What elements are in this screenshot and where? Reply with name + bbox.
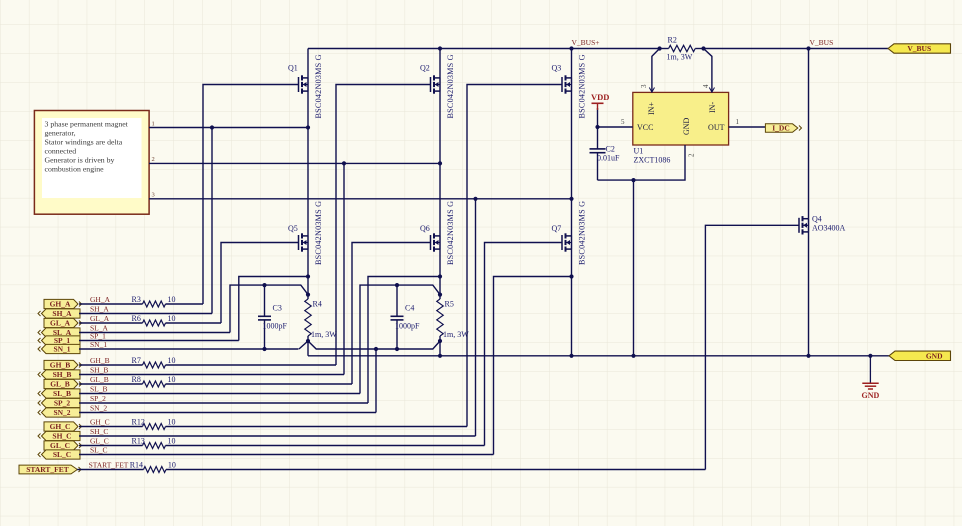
junction SH_A phase A — [210, 125, 214, 129]
svg-text:Q7: Q7 — [552, 224, 562, 233]
svg-text:3: 3 — [152, 192, 155, 199]
junction bus R2 left sense tap — [658, 46, 662, 50]
junction Q6 source SL_B tap — [438, 293, 442, 297]
svg-text:SL_B: SL_B — [53, 389, 71, 398]
port GND — [889, 351, 951, 360]
svg-text:GL_C: GL_C — [50, 441, 70, 450]
svg-text:5: 5 — [621, 118, 625, 126]
svg-text:Q2: Q2 — [420, 64, 430, 73]
svg-text:I_DC: I_DC — [772, 124, 790, 133]
generator note box — [34, 111, 149, 215]
svg-text:OUT: OUT — [708, 123, 725, 132]
svg-text:START_FET: START_FET — [26, 465, 69, 474]
port SP_2 — [42, 398, 81, 407]
junction rail at Q7 source — [569, 354, 573, 358]
wire Q6 source node down — [439, 249, 441, 295]
svg-text:SL_C: SL_C — [90, 446, 108, 455]
port SL_B — [42, 389, 81, 398]
junction C4 bottom on SN_2 line — [395, 347, 399, 351]
svg-text:GL_A: GL_A — [90, 314, 110, 323]
resistor R8 10 — [79, 383, 143, 385]
riser SH_C to phase C — [475, 199, 477, 436]
transistor Q3 BSC042N03MS G — [561, 77, 563, 92]
transistor Q2 BSC042N03MS G — [430, 77, 432, 92]
wire SN_2 — [79, 412, 376, 414]
wire ground branch down to rail — [633, 180, 635, 356]
ground symbol GND — [869, 356, 871, 383]
wire Q4 source to rail — [808, 232, 810, 356]
resistor R5 1m 3W shunt phase B — [439, 295, 441, 299]
junction Q5 source SL_A tap — [306, 293, 310, 297]
svg-text:GND: GND — [682, 117, 691, 135]
wire phase B from generator pin 2 — [149, 162, 440, 164]
op-amp U1 ZXCT1086 current monitor — [633, 92, 729, 145]
svg-text:ZXCT1086: ZXCT1086 — [634, 156, 671, 165]
riser GH_A to Q1 gate — [203, 85, 299, 305]
svg-text:BSC042N03MS G: BSC042N03MS G — [314, 54, 323, 118]
svg-text:SH_C: SH_C — [52, 432, 71, 441]
port SN_2 — [42, 408, 81, 417]
wire Q7 source to ground rail — [571, 249, 573, 357]
svg-text:GH_B: GH_B — [50, 361, 70, 370]
junction SH_C phase C — [473, 197, 477, 201]
wire phase C from generator pin 3 — [149, 198, 572, 200]
svg-text:combustion engine: combustion engine — [45, 165, 105, 174]
junction Q5 source SP_1 tap — [306, 274, 310, 278]
resistor R7 10 — [79, 364, 143, 366]
svg-text:0.01uF: 0.01uF — [597, 154, 620, 163]
svg-text:GL_C: GL_C — [90, 437, 109, 446]
riser GH_C to Q3 gate — [467, 85, 563, 427]
svg-text:R8: R8 — [132, 375, 141, 384]
junction bus R2 right sense tap — [701, 46, 705, 50]
port SH_B — [42, 370, 81, 379]
svg-text:10: 10 — [168, 461, 176, 470]
svg-text:2: 2 — [152, 156, 155, 163]
wire Q1 source down to phase A — [307, 91, 309, 236]
wire OUT pin 1 to I_DC port — [729, 126, 766, 128]
svg-text:SP_2: SP_2 — [90, 394, 106, 403]
svg-text:1: 1 — [152, 120, 155, 127]
svg-text:10: 10 — [168, 437, 176, 446]
transistor Q7 BSC042N03MS G — [561, 235, 563, 250]
riser SL_A to C3/Q5 source — [230, 285, 308, 332]
wire SH_A — [79, 313, 212, 315]
svg-text:GH_A: GH_A — [90, 295, 111, 304]
port SN_1 — [42, 344, 81, 353]
junction Q1 source at phase A — [306, 125, 310, 129]
junction ground branch — [631, 178, 635, 182]
svg-text:R6: R6 — [132, 314, 141, 323]
wire Q2 drain to bus — [439, 49, 441, 79]
wire R4 bottom to ground rail — [307, 341, 309, 356]
svg-text:1m, 3W: 1m, 3W — [311, 330, 337, 339]
svg-text:SP_2: SP_2 — [54, 399, 71, 408]
junction on bus at Q3 drain / V_BUS+ — [569, 46, 573, 50]
junction bus at Q4 drain / V_BUS — [806, 46, 810, 50]
port SP_1 — [42, 336, 81, 345]
wire Q3 source down to phase C — [571, 91, 573, 236]
svg-text:GH_B: GH_B — [90, 356, 110, 365]
wire SP_1 — [79, 340, 239, 342]
wire top bus V_BUS+ — [308, 48, 660, 50]
port START_FET — [19, 465, 77, 474]
port I_DC — [765, 124, 797, 133]
port GL_C — [44, 441, 78, 450]
svg-text:SN_1: SN_1 — [53, 345, 70, 354]
wire SL_C — [79, 454, 494, 456]
resistor R12 10 — [79, 426, 143, 428]
wire SN_1 sense line to R4 and R5 bottoms — [299, 341, 440, 349]
riser SL_C to Q7 source — [494, 277, 572, 455]
svg-text:U1: U1 — [634, 147, 644, 156]
wire bus to V_BUS port — [704, 48, 889, 50]
wire VDD node to VCC pin 5 — [598, 126, 633, 128]
svg-text:R4: R4 — [313, 300, 322, 309]
junction C3 top on SL_A line — [262, 283, 266, 287]
junction rail at GND symbol — [868, 354, 872, 358]
svg-text:1m, 3W: 1m, 3W — [443, 330, 469, 339]
svg-text:SL_C: SL_C — [53, 450, 71, 459]
wire Q5 source node down — [307, 249, 309, 295]
svg-text:GL_B: GL_B — [90, 375, 109, 384]
svg-text:10: 10 — [168, 314, 176, 323]
svg-text:BSC042N03MS G: BSC042N03MS G — [314, 201, 323, 265]
junction Q3 source at phase C — [569, 197, 573, 201]
svg-text:2: 2 — [688, 153, 696, 157]
port GH_A — [44, 299, 78, 308]
svg-text:GND: GND — [862, 391, 880, 400]
capacitor C3 1000pF — [264, 285, 266, 316]
junction rail at R5 — [438, 354, 442, 358]
riser SP_1 to Q5 source — [239, 277, 308, 341]
riser SN_2 to sense line — [375, 349, 377, 413]
svg-text:Q1: Q1 — [288, 64, 298, 73]
svg-text:IN+: IN+ — [647, 102, 656, 115]
svg-text:R3: R3 — [132, 295, 141, 304]
svg-text:10: 10 — [168, 375, 176, 384]
port SL_C — [42, 450, 81, 459]
junction R5 bottom SN_2 sense — [438, 339, 442, 343]
resistor R4 1m 3W shunt phase A — [307, 295, 309, 299]
svg-text:VDD: VDD — [591, 92, 609, 102]
svg-text:connected: connected — [45, 147, 77, 156]
svg-text:C3: C3 — [273, 304, 282, 313]
wire SL_B — [79, 393, 360, 395]
svg-text:START_FET: START_FET — [89, 461, 129, 470]
junction rail at Q4 source — [806, 354, 810, 358]
svg-text:Q6: Q6 — [420, 224, 430, 233]
junction C4 top on SL_B line — [395, 283, 399, 287]
svg-text:AO3400A: AO3400A — [812, 223, 846, 232]
wire SL_A — [79, 332, 230, 334]
svg-text:generator,: generator, — [45, 129, 76, 138]
junction on bus at Q2 drain — [438, 46, 442, 50]
svg-text:SN_2: SN_2 — [90, 404, 107, 413]
svg-text:BSC042N03MS G: BSC042N03MS G — [578, 201, 587, 265]
capacitor C4 1000pF — [396, 285, 398, 316]
svg-text:V_BUS: V_BUS — [810, 38, 834, 47]
junction SH_B phase B — [342, 161, 346, 165]
svg-text:SH_C: SH_C — [90, 427, 108, 436]
wire START_FET to Q4 gate riser — [166, 469, 705, 471]
junction rail at U1 ground branch — [631, 354, 635, 358]
svg-text:3: 3 — [640, 84, 648, 88]
junction R4 bottom SN_1 sense — [306, 339, 310, 343]
svg-text:GND: GND — [926, 351, 943, 360]
svg-text:SH_A: SH_A — [90, 305, 109, 314]
svg-text:GH_A: GH_A — [50, 300, 71, 309]
wire ground rail — [308, 355, 889, 357]
svg-text:3 phase permanent magnet: 3 phase permanent magnet — [45, 120, 129, 129]
wire Q3 drain to bus — [571, 49, 573, 79]
port GH_C — [44, 422, 78, 431]
wire phase A from generator pin 1 — [149, 127, 308, 129]
wire R2 right tap to IN- pin 4 — [704, 49, 712, 93]
wire SH_B — [79, 374, 344, 376]
resistor R2 1m 3W shunt — [660, 48, 669, 50]
junction Q2 source at phase B — [438, 161, 442, 165]
svg-text:1m, 3W: 1m, 3W — [667, 53, 693, 62]
svg-text:10: 10 — [168, 356, 176, 365]
riser SH_B to phase B — [343, 163, 345, 374]
wire Q1 drain to bus — [307, 49, 309, 79]
svg-text:GH_C: GH_C — [50, 422, 71, 431]
svg-text:BSC042N03MS G: BSC042N03MS G — [446, 54, 455, 118]
wire SN_1 — [79, 348, 299, 350]
port SH_C — [42, 431, 81, 440]
power port VDD — [597, 108, 599, 127]
resistor R13 10 — [79, 445, 143, 447]
wire C2 bottom to GND pin 2 — [598, 145, 686, 180]
svg-text:R5: R5 — [445, 300, 454, 309]
svg-text:SN_2: SN_2 — [53, 408, 70, 417]
svg-text:SH_A: SH_A — [52, 309, 72, 318]
junction SN_2 sense line — [374, 347, 378, 351]
svg-text:1000pF: 1000pF — [395, 322, 420, 331]
riser SP_2 to Q6 source — [368, 277, 440, 404]
svg-text:IN-: IN- — [708, 102, 717, 113]
port GL_B — [44, 379, 78, 388]
port SL_A — [42, 328, 81, 337]
junction Q7 source SL_C tap — [569, 274, 573, 278]
port SH_A — [42, 309, 81, 318]
port V_BUS — [888, 44, 951, 53]
svg-text:10: 10 — [168, 418, 176, 427]
svg-text:R12: R12 — [132, 418, 145, 427]
svg-text:BSC042N03MS G: BSC042N03MS G — [578, 54, 587, 118]
svg-text:V_BUS: V_BUS — [907, 44, 931, 53]
riser SL_B to C4/Q6 source — [360, 285, 440, 393]
svg-text:SH_B: SH_B — [53, 370, 72, 379]
svg-text:Stator windings are delta: Stator windings are delta — [45, 138, 123, 147]
resistor R6 10 — [79, 322, 143, 324]
svg-text:10: 10 — [168, 295, 176, 304]
svg-text:SH_B: SH_B — [90, 366, 108, 375]
capacitor C2 0.01uF — [597, 127, 599, 149]
svg-text:GL_A: GL_A — [50, 319, 71, 328]
svg-text:GL_B: GL_B — [50, 380, 70, 389]
transistor Q4 AO3400A — [798, 218, 800, 233]
svg-text:R14: R14 — [130, 461, 143, 470]
transistor Q5 BSC042N03MS G — [298, 235, 300, 250]
wire R2 left tap to IN+ pin 3 — [652, 49, 660, 93]
junction Q6 source SP_2 tap — [438, 274, 442, 278]
svg-text:R7: R7 — [132, 356, 141, 365]
svg-text:VCC: VCC — [637, 123, 653, 132]
resistor R3 10 — [79, 303, 143, 305]
svg-text:Q5: Q5 — [288, 224, 298, 233]
wire SH_C — [79, 435, 476, 437]
svg-text:1000pF: 1000pF — [263, 322, 288, 331]
port GH_B — [44, 360, 78, 369]
svg-text:BSC042N03MS G: BSC042N03MS G — [446, 201, 455, 265]
svg-text:SN_1: SN_1 — [90, 340, 107, 349]
svg-text:V_BUS+: V_BUS+ — [572, 38, 600, 47]
svg-text:C4: C4 — [405, 304, 414, 313]
svg-text:C2: C2 — [606, 145, 615, 154]
wire R5 bottom to ground rail — [439, 341, 441, 356]
wire Q2 source down to phase B — [439, 91, 441, 236]
riser GL_A to Q5 gate — [221, 243, 299, 324]
svg-text:4: 4 — [702, 84, 710, 88]
transistor Q1 BSC042N03MS G — [298, 77, 300, 92]
wire SP_2 — [79, 402, 368, 404]
svg-text:Q3: Q3 — [552, 64, 562, 73]
svg-text:Generator is driven by: Generator is driven by — [45, 156, 115, 165]
svg-text:R2: R2 — [668, 36, 677, 45]
wire Q4 drain to bus — [808, 49, 810, 219]
port GL_A — [44, 318, 78, 327]
svg-text:SL_B: SL_B — [90, 385, 108, 394]
riser GH_B to Q2 gate — [336, 85, 431, 366]
riser GL_B to Q6 gate — [352, 243, 431, 385]
svg-text:GH_C: GH_C — [90, 418, 110, 427]
svg-text:1: 1 — [736, 118, 740, 126]
riser GL_C to Q7 gate — [485, 243, 563, 446]
transistor Q6 BSC042N03MS G — [430, 235, 432, 250]
junction VDD C2 VCC — [595, 125, 599, 129]
wire Q4 gate from START_FET riser — [705, 225, 799, 469]
resistor R14 10 — [77, 469, 143, 471]
junction C3 bottom on SN_1 line — [262, 347, 266, 351]
svg-text:R13: R13 — [132, 437, 145, 446]
riser SH_A to phase A — [211, 128, 213, 314]
